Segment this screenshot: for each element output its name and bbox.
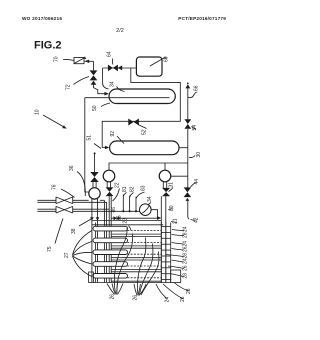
label 52 [139, 125, 148, 135]
svg-text:WO 2017/066216: WO 2017/066216 [22, 16, 62, 21]
valve 44 [184, 187, 192, 201]
svg-text:92: 92 [110, 131, 116, 137]
block bottom bar [93, 282, 171, 284]
svg-text:28: 28 [186, 288, 192, 294]
stub pump C to valve C [163, 181, 166, 188]
valve 52 [128, 119, 139, 126]
svg-text:72: 72 [66, 84, 72, 90]
row lines right section [112, 231, 162, 282]
label 60 [150, 56, 170, 66]
label 92 [110, 131, 124, 144]
svg-text:26: 26 [133, 295, 139, 301]
pump C stub and circle [159, 163, 188, 182]
svg-text:70: 70 [54, 56, 60, 62]
riser 66 with arrow and dot [185, 83, 190, 120]
svg-text:PCT/EP2016/071779: PCT/EP2016/071779 [178, 16, 226, 21]
stadium tubes [93, 226, 128, 278]
svg-text:26: 26 [110, 294, 116, 300]
valve 72 [90, 70, 98, 80]
svg-text:23: 23 [123, 218, 129, 224]
svg-text:80: 80 [169, 205, 175, 211]
svg-text:60: 60 [164, 56, 170, 62]
svg-text:81: 81 [122, 186, 128, 192]
label 82 [129, 186, 135, 197]
svg-text:38: 38 [71, 228, 77, 234]
label 23 [123, 218, 132, 230]
label 51 [87, 135, 102, 149]
label 27 with fan leaders [64, 231, 92, 277]
label 70 [54, 56, 75, 62]
pump B circle [103, 170, 115, 182]
pipe from junction y68 down right side into vessel 92 [102, 68, 180, 149]
label 34 vessel [110, 81, 125, 91]
far right wall 21 [170, 223, 172, 283]
flow arrows at block top [90, 217, 94, 220]
suction header wire y163 [109, 163, 188, 170]
bottom left end box [89, 272, 94, 283]
pump 34 circle with impeller [140, 204, 152, 216]
wire long left vertical 36 [85, 98, 89, 192]
riser continues down [187, 129, 189, 188]
label 83 [136, 185, 146, 198]
bottom fan labels 26 26 24 [107, 284, 171, 303]
vessel 34 (heat exchanger shell) [109, 89, 175, 104]
water pipes double lines [37, 200, 139, 282]
right header ticks [161, 227, 170, 280]
label 34 pump [147, 196, 153, 205]
vessel 92 [110, 141, 179, 155]
label 80 [168, 205, 175, 211]
svg-text:28: 28 [183, 273, 189, 279]
cross-over valve 76 (two bowties) [56, 197, 73, 213]
block top bars [92, 219, 161, 221]
svg-text:34: 34 [147, 196, 153, 202]
svg-text:26: 26 [183, 246, 189, 252]
HEAT EXCHANGER BLOCK [64, 215, 192, 302]
valve 64 [108, 65, 122, 72]
pipe 42 below valve 44 [188, 201, 200, 223]
label 21 [171, 218, 179, 224]
label 72 [66, 77, 90, 91]
valve 54 [184, 119, 191, 129]
label 36 [69, 165, 85, 196]
svg-text:86: 86 [111, 207, 117, 213]
svg-text:75: 75 [47, 246, 53, 252]
svg-text:36: 36 [69, 165, 75, 171]
relief valve box 70 [74, 56, 86, 63]
svg-text:31: 31 [169, 182, 175, 188]
svg-text:FIG.2: FIG.2 [34, 40, 62, 52]
svg-text:22: 22 [115, 182, 121, 188]
svg-text:51: 51 [87, 135, 93, 141]
valve C [162, 188, 170, 196]
stub pump B to valve B [107, 181, 110, 187]
pump A outlet to block header [92, 198, 98, 283]
wire box70 to valve72 riser [85, 60, 94, 71]
svg-text:76: 76 [52, 184, 58, 190]
wire vessel34 top to y68 line [103, 68, 109, 89]
wire valve72 down into vessel 34 with flow arrow [91, 81, 109, 96]
svg-text:24: 24 [183, 258, 189, 264]
label 81 [122, 186, 128, 196]
svg-text:83: 83 [140, 185, 146, 191]
pipe C double lines down to block [161, 196, 166, 282]
receiver box 60 [136, 57, 162, 76]
label 66 [188, 85, 200, 97]
label 75 [47, 219, 63, 253]
svg-text:27: 27 [64, 252, 70, 258]
svg-text:52: 52 [142, 129, 148, 135]
check valve 86 line [111, 207, 159, 220]
svg-text:30: 30 [196, 152, 202, 158]
left header middle line [95, 223, 97, 283]
wire vessel92 to riser [179, 147, 188, 149]
internal leader curves through block [114, 227, 159, 296]
right column labels with leaders [163, 226, 192, 302]
svg-text:64: 64 [107, 51, 113, 57]
svg-text:50: 50 [92, 105, 98, 111]
svg-text:82: 82 [129, 186, 135, 192]
label 38 [71, 219, 92, 235]
pump A circle [89, 188, 100, 199]
label 31 [169, 182, 175, 192]
pipe A with dot, valve, pump [90, 152, 98, 188]
label 64 [107, 51, 113, 64]
svg-text:2/2: 2/2 [116, 28, 124, 34]
svg-text:66: 66 [194, 85, 200, 91]
right header columns [160, 222, 162, 283]
svg-text:21: 21 [173, 218, 179, 224]
svg-text:28: 28 [183, 253, 189, 259]
inner tube of vessel 34 [85, 97, 170, 99]
pump 34 outlet to pipe C [151, 210, 161, 220]
label 30 [189, 152, 202, 158]
label 10 with arrow [35, 109, 67, 128]
label 22 [113, 182, 121, 201]
sensor lines 81 82 83 with down arrows [122, 195, 137, 213]
svg-text:44: 44 [194, 179, 200, 185]
valve B [106, 187, 114, 196]
label 50 [92, 103, 110, 111]
svg-text:10: 10 [35, 109, 41, 115]
label 76 [52, 184, 75, 197]
wire y68 from junction to box 60 [103, 67, 137, 69]
pipe B double lines down to block [109, 196, 111, 282]
bottom right end box [171, 270, 181, 283]
svg-text:24: 24 [183, 226, 189, 232]
label 44 [191, 179, 201, 187]
svg-text:34: 34 [110, 81, 116, 87]
label 54 [192, 125, 199, 131]
